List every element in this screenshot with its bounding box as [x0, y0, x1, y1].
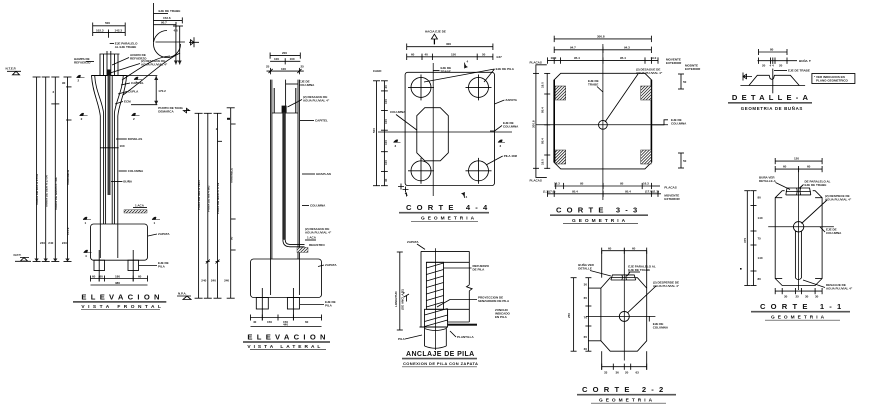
label zapata right	[148, 232, 170, 236]
label refuerzo de pila	[444, 264, 490, 272]
slot c11	[795, 231, 801, 280]
svg-text:40: 40	[425, 52, 429, 56]
svg-text:AGUA PLUVIAL 4": AGUA PLUVIAL 4"	[825, 198, 852, 202]
svg-text:65: 65	[584, 296, 588, 300]
svg-text:(1.3)(7.0): (1.3)(7.0)	[543, 190, 555, 194]
svg-text:DOVELAS: DOVELAS	[128, 137, 143, 141]
svg-text:EJE DE TRABE: EJE DE TRABE	[159, 9, 181, 13]
hatch pad BL	[555, 150, 566, 164]
title CORTE 2-2	[577, 385, 676, 403]
column outer walls	[271, 80, 300, 259]
svg-text:BUÑA: BUÑA	[123, 179, 132, 184]
corner ticks c11	[775, 198, 822, 279]
dimension line v4 lateral	[227, 108, 236, 298]
svg-text:PILA 40Ø: PILA 40Ø	[504, 154, 518, 158]
label modnte exterior right	[685, 64, 701, 72]
buna trapezoid profile	[740, 75, 805, 85]
svg-text:19.0: 19.0	[551, 56, 557, 60]
label capitel	[121, 81, 144, 85]
foundation block lateral	[251, 259, 322, 298]
level marker N.T.E.P.	[6, 67, 22, 75]
svg-text:EJE DE TRABE: EJE DE TRABE	[788, 69, 810, 73]
svg-text:EN PILA: EN PILA	[495, 315, 508, 319]
svg-text:GEOMETRIA: GEOMETRIA	[771, 314, 827, 320]
svg-text:100: 100	[384, 140, 388, 145]
svg-text:CAPITEL: CAPITEL	[131, 81, 144, 85]
svg-text:100: 100	[384, 99, 388, 104]
svg-text:95.4: 95.4	[574, 56, 580, 60]
leader desague c22	[628, 281, 680, 313]
svg-text:AL EJE TRABE: AL EJE TRABE	[115, 45, 137, 49]
label eje de columna c22	[649, 316, 669, 330]
left dims c22	[567, 278, 592, 352]
left dims c44	[372, 69, 388, 186]
title CORTE 1-1	[751, 302, 850, 320]
corner tick marks c44	[398, 184, 409, 197]
section arrows 2 at cap	[77, 75, 143, 84]
svg-text:TRABE: TRABE	[588, 83, 598, 87]
foundation block front	[91, 224, 148, 260]
svg-text:90: 90	[229, 236, 233, 240]
eje de trabe top centerline	[154, 3, 183, 42]
svg-text:140: 140	[758, 216, 763, 220]
svg-text:PILA: PILA	[325, 304, 333, 308]
svg-text:95.4: 95.4	[541, 107, 545, 113]
label ecm	[115, 100, 131, 105]
svg-text:CUPLA: CUPLA	[128, 90, 139, 94]
hacia eje arrow	[425, 30, 446, 45]
svg-text:DEMARCA: DEMARCA	[158, 110, 174, 114]
svg-text:PLANO GEOMETRICO: PLANO GEOMETRICO	[816, 79, 849, 83]
centerline v c11	[798, 168, 800, 290]
label buna ver detalle c22	[578, 262, 611, 276]
svg-text:GEOMETRIA: GEOMETRIA	[599, 397, 655, 403]
center circle c22	[619, 311, 629, 321]
top dimension 200	[270, 51, 300, 59]
svg-text:AGUA PLUVIAL 4": AGUA PLUVIAL 4"	[303, 99, 330, 103]
label movente exterior bottom right2	[658, 194, 681, 202]
svg-text:1 ACA: 1 ACA	[135, 204, 145, 208]
dimension line v1	[33, 77, 46, 262]
svg-text:100: 100	[274, 57, 279, 61]
label 1 aca / tarima hatch	[124, 204, 147, 214]
svg-text:380: 380	[115, 281, 120, 285]
label hampa de refuerzo	[74, 57, 94, 65]
svg-text:94.7: 94.7	[570, 45, 576, 49]
svg-text:GEOMETRIA: GEOMETRIA	[572, 218, 628, 224]
label zapata anclaje	[407, 240, 425, 249]
svg-text:GEOMETRIA DE BUÑAS: GEOMETRIA DE BUÑAS	[741, 106, 803, 111]
column lines inside block	[271, 259, 300, 295]
second dimension 100 100	[270, 57, 300, 64]
title CORTE 4-4	[399, 203, 492, 222]
svg-text:65: 65	[584, 335, 588, 339]
center circle c33	[599, 120, 608, 129]
label eje de columna c44	[490, 121, 519, 131]
svg-text:142.3: 142.3	[115, 28, 123, 32]
svg-text:95: 95	[620, 182, 624, 186]
svg-text:PLACAS: PLACAS	[530, 179, 542, 183]
svg-text:4.6: 4.6	[174, 29, 179, 33]
label eje paralelo al eje trabe	[110, 42, 138, 50]
centerline h c11	[768, 226, 834, 228]
level marker N.P.A.	[177, 292, 191, 300]
hatch pad BR	[641, 150, 652, 164]
label eje de pila lateral	[300, 300, 336, 308]
pole flare outline	[92, 76, 127, 225]
leader desague c33	[605, 68, 663, 123]
svg-text:300.8: 300.8	[597, 34, 605, 38]
label acero de refuerzo	[112, 53, 147, 65]
svg-text:16.3: 16.3	[554, 182, 560, 186]
circle c11	[793, 222, 803, 232]
svg-text:VISTA LATERAL: VISTA LATERAL	[247, 344, 323, 350]
svg-text:19.0: 19.0	[541, 159, 545, 165]
svg-text:100: 100	[384, 119, 388, 124]
svg-text:T: T	[403, 291, 405, 295]
top dimension row2	[407, 52, 502, 60]
title ANCLAJE DE PILA	[402, 351, 478, 367]
svg-text:VARIABLE: VARIABLE	[229, 168, 233, 183]
svg-text:COLUMNA: COLUMNA	[310, 204, 326, 208]
svg-text:40: 40	[253, 320, 257, 324]
svg-text:COLUMNA: COLUMNA	[653, 326, 669, 330]
svg-text:19.0: 19.0	[541, 82, 545, 88]
svg-text:60: 60	[305, 320, 309, 324]
label punto de tangencia	[158, 106, 189, 114]
svg-text:VARIA DE 90A A 170A: VARIA DE 90A A 170A	[35, 173, 39, 205]
label desague lower + registro	[297, 227, 332, 252]
svg-text:95.4: 95.4	[625, 190, 631, 194]
buna plate c11	[786, 188, 811, 195]
label desague agua pluvial	[110, 59, 168, 73]
svg-text:150: 150	[451, 52, 456, 56]
svg-text:16.3: 16.3	[643, 182, 649, 186]
svg-text:30: 30	[584, 283, 588, 287]
svg-text:80: 80	[758, 196, 762, 200]
svg-text:VARIA DE GRUA A TOL: VARIA DE GRUA A TOL	[54, 177, 58, 210]
svg-text:COLUMNA: COLUMNA	[299, 83, 315, 87]
label zuncho	[495, 308, 510, 319]
chamfer extension ticks c22	[588, 251, 646, 370]
top anchor bolt dims	[93, 21, 126, 38]
svg-text:EXTERIOR: EXTERIOR	[685, 67, 701, 71]
svg-text:20: 20	[625, 370, 629, 374]
hatch pad TR	[641, 86, 652, 100]
svg-text:ELEVACION: ELEVACION	[81, 293, 163, 302]
capitel line + downspout cap	[272, 106, 298, 113]
label placas top left	[530, 61, 547, 74]
svg-text:150: 150	[267, 320, 272, 324]
svg-text:PLANTILLA: PLANTILLA	[457, 335, 474, 339]
bottom dims c33	[543, 182, 659, 197]
pile circle TR	[466, 75, 492, 101]
svg-text:COLUMNA: COLUMNA	[671, 122, 687, 126]
svg-text:N.T.E.P.: N.T.E.P.	[6, 67, 17, 71]
label placas bottom right	[651, 186, 676, 190]
svg-text:SENZADERE DE PILA: SENZADERE DE PILA	[478, 299, 510, 303]
svg-text:75: 75	[758, 237, 762, 241]
label buna ver detalle c11	[759, 175, 790, 190]
label placas bottom left	[530, 169, 547, 183]
downspout pipe	[283, 113, 305, 247]
dimension line v2 lateral	[204, 113, 216, 298]
svg-text:500: 500	[372, 128, 376, 133]
label capitel lateral	[300, 119, 328, 123]
dimension line v3	[51, 77, 67, 262]
svg-text:AGUA PLUVIAL 4": AGUA PLUVIAL 4"	[826, 287, 853, 291]
svg-text:100: 100	[290, 57, 295, 61]
svg-text:N.P.A.: N.P.A.	[178, 292, 187, 296]
svg-text:170.2: 170.2	[158, 89, 166, 93]
svg-text:80: 80	[758, 277, 762, 281]
svg-text:100: 100	[384, 160, 388, 165]
svg-text:500: 500	[105, 21, 110, 25]
label columna low	[119, 169, 144, 173]
main plate c11	[775, 191, 822, 286]
svg-text:CORTE 4-4: CORTE 4-4	[406, 203, 492, 212]
svg-text:40: 40	[384, 178, 388, 182]
top dimension 80	[759, 48, 788, 56]
third dimension row	[266, 65, 304, 75]
svg-text:25: 25	[301, 65, 305, 69]
svg-text:60: 60	[783, 165, 787, 169]
section arrows 1 at foundation	[83, 217, 160, 258]
label desague bottom c11	[803, 280, 853, 291]
svg-text:63: 63	[636, 370, 640, 374]
svg-text:19.0: 19.0	[651, 56, 657, 60]
svg-text:50: 50	[482, 52, 486, 56]
title ELEVACION VISTA FRONTAL	[73, 293, 166, 310]
svg-text:EJE DE TRABE: EJE DE TRABE	[805, 183, 827, 187]
svg-text:30: 30	[815, 295, 819, 299]
svg-text:33: 33	[604, 370, 608, 374]
svg-text:CONEXION DE PILA CON ZAPATA: CONEXION DE PILA CON ZAPATA	[403, 361, 478, 366]
top dimension row2	[554, 45, 651, 53]
label eje paralelo c22	[627, 265, 656, 277]
label eje de pila	[139, 261, 169, 269]
svg-text:AGUA PLUVIAL 4": AGUA PLUVIAL 4"	[305, 231, 332, 235]
svg-text:240: 240	[48, 241, 53, 245]
svg-text:AGUA PLUVIAL 4": AGUA PLUVIAL 4"	[636, 71, 663, 75]
piles below lateral block	[256, 288, 299, 321]
svg-text:102.3: 102.3	[96, 28, 104, 32]
hatch pad TL	[555, 86, 566, 100]
svg-text:COLUMNA: COLUMNA	[390, 110, 406, 114]
label eje de columna	[286, 80, 315, 88]
svg-text:60: 60	[100, 274, 104, 278]
leader desague c11	[802, 194, 852, 224]
label eje de pila c44	[424, 67, 515, 82]
svg-text:HACIA EJE DE: HACIA EJE DE	[425, 30, 446, 34]
buna dimension line	[758, 58, 812, 68]
zapata plate rect	[405, 72, 494, 185]
label graplan	[302, 172, 331, 176]
svg-text:VARIABLE: VARIABLE	[66, 170, 70, 185]
top dim c22	[602, 247, 647, 254]
svg-text:40: 40	[384, 85, 388, 89]
transition arc detail	[122, 26, 185, 95]
zuncho box at pile base	[425, 309, 448, 328]
plate square c33	[554, 73, 651, 169]
svg-text:60: 60	[92, 274, 96, 278]
section arrows at flare	[80, 113, 140, 121]
bottom dimension line	[91, 274, 148, 285]
section arrow top	[465, 60, 469, 69]
note box	[812, 74, 855, 84]
svg-text:DETALLE-A: DETALLE-A	[759, 179, 777, 183]
svg-text:EXTERIOR: EXTERIOR	[666, 61, 682, 65]
dot mark left	[740, 268, 742, 270]
pile cylinder below	[425, 327, 447, 348]
svg-text:300.8: 300.8	[532, 120, 536, 128]
dimension line v1 lateral	[195, 113, 207, 298]
level marker N.P.T.	[14, 253, 32, 261]
dimension line v2	[42, 77, 54, 262]
label zapata c44	[495, 98, 518, 104]
label pila anclaje	[398, 335, 422, 341]
svg-text:EXTERIOR: EXTERIOR	[664, 197, 680, 201]
pole cap plate	[91, 75, 126, 77]
svg-text:ANCLAJE DE PILA: ANCLAJE DE PILA	[406, 351, 475, 358]
right vertical dim 170.2	[127, 76, 167, 105]
svg-text:REGISTRO: REGISTRO	[309, 243, 325, 247]
label eje paralelo c11	[799, 180, 831, 189]
svg-text:GRAPLAN: GRAPLAN	[316, 172, 331, 176]
svg-text:240: 240	[211, 279, 216, 283]
svg-text:PLACAS: PLACAS	[664, 186, 676, 190]
svg-text:COLUMNA: COLUMNA	[826, 231, 842, 235]
svg-text:240: 240	[201, 279, 206, 283]
title ELEVACION VISTA LATERAL	[243, 333, 330, 350]
svg-text:DETALLE: DETALLE	[578, 267, 592, 271]
svg-text:BUÑA ▼: BUÑA ▼	[799, 58, 811, 63]
svg-text:30: 30	[805, 295, 809, 299]
label columna c44	[390, 110, 417, 130]
label proyeccion	[437, 296, 510, 308]
svg-text:90: 90	[62, 81, 66, 85]
svg-text:36: 36	[616, 370, 620, 374]
svg-text:LONGITUD: LONGITUD	[394, 291, 398, 307]
svg-text:60: 60	[608, 247, 612, 251]
svg-text:80: 80	[770, 48, 774, 52]
bottom dim c11	[775, 288, 822, 299]
svg-text:PARA DE IELR A 7709: PARA DE IELR A 7709	[216, 183, 220, 214]
label eje de columna c33	[651, 118, 687, 126]
svg-text:200: 200	[282, 51, 287, 55]
label pila 40 c44	[486, 154, 518, 165]
octagon c22	[601, 278, 647, 352]
svg-text:TRABE: TRABE	[441, 70, 451, 74]
svg-text:95: 95	[580, 182, 584, 186]
label zapata lateral	[318, 263, 337, 267]
label eje de trabe c44	[433, 66, 451, 74]
svg-text:ZAPATA: ZAPATA	[158, 232, 170, 236]
svg-text:180: 180	[115, 274, 120, 278]
left dims c11	[743, 191, 763, 286]
left arrow detalle	[743, 73, 752, 81]
center line of buna	[772, 69, 774, 94]
zapata outline	[421, 251, 472, 327]
centerline horizontal c44	[378, 131, 512, 133]
pile circle TL	[408, 75, 434, 101]
svg-text:4 4: 4 4	[770, 64, 775, 68]
svg-text:60: 60	[138, 274, 142, 278]
svg-text:375: 375	[743, 238, 747, 243]
pole core stripe	[106, 76, 113, 225]
svg-text:25: 25	[266, 65, 270, 69]
svg-text:152.6: 152.6	[163, 16, 171, 20]
centerline h c22	[586, 315, 655, 317]
svg-text:DETALLE-A: DETALLE-A	[732, 93, 812, 102]
svg-text:60: 60	[807, 165, 811, 169]
svg-text:ZAPATA: ZAPATA	[505, 98, 517, 102]
svg-text:ELEVACION: ELEVACION	[247, 333, 329, 342]
label dovelas mid	[100, 137, 142, 148]
top dimension 300	[407, 42, 493, 50]
svg-text:20: 20	[762, 64, 766, 68]
svg-text:170.2: 170.2	[66, 227, 70, 235]
svg-text:100: 100	[120, 144, 125, 148]
pile with helix	[426, 262, 469, 309]
svg-text:ECM: ECM	[124, 100, 131, 104]
bottom dimension lateral	[251, 315, 322, 327]
svg-text:30: 30	[584, 347, 588, 351]
pile circle BR	[466, 158, 492, 184]
svg-text:AGUA PLUVIAL 4°: AGUA PLUVIAL 4°	[653, 284, 680, 288]
svg-text:50: 50	[683, 159, 687, 163]
svg-text:70: 70	[584, 316, 588, 320]
bottom zapata line	[420, 326, 448, 328]
north cross flag	[189, 37, 199, 47]
svg-text:PLACAS: PLACAS	[530, 61, 542, 65]
svg-text:DE PILA: DE PILA	[473, 268, 486, 272]
svg-text:PARA DE IGH A 1994: PARA DE IGH A 1994	[197, 180, 201, 210]
small tick marker	[403, 291, 409, 302]
centerline vertical c44	[432, 63, 434, 196]
label eje de trabe detalle	[774, 69, 810, 73]
section arrow left 3	[394, 140, 401, 148]
svg-text:PILA: PILA	[398, 337, 406, 341]
title CORTE 3-3	[550, 206, 648, 224]
svg-text:1 ACA: 1 ACA	[307, 236, 317, 240]
svg-text:240: 240	[40, 241, 45, 245]
column octagon c44	[417, 108, 449, 161]
centerline horizontal c33	[536, 124, 668, 126]
label cupla	[118, 90, 139, 95]
svg-text:60: 60	[632, 247, 636, 251]
svg-text:PILA: PILA	[158, 265, 166, 269]
svg-text:20: 20	[779, 64, 783, 68]
svg-text:100: 100	[281, 67, 286, 71]
top dim c11	[775, 157, 822, 173]
svg-text:CAED: CAED	[373, 69, 382, 73]
svg-text:ZAPATA: ZAPATA	[325, 263, 337, 267]
label plantilla	[450, 331, 474, 339]
section arrow bottom	[462, 192, 468, 199]
svg-text:95.4: 95.4	[572, 190, 578, 194]
svg-text:CORTE 3-3: CORTE 3-3	[556, 206, 642, 215]
right bracket marks c33	[678, 74, 687, 168]
svg-text:EJE DE PILA: EJE DE PILA	[496, 67, 515, 71]
pile circle BL	[408, 158, 434, 184]
dimension line v4	[62, 77, 72, 262]
label desague top	[288, 95, 330, 107]
svg-text:GEOMETRIA: GEOMETRIA	[421, 216, 477, 222]
top dimension 300.8	[554, 34, 651, 42]
svg-text:CORTE 2-2: CORTE 2-2	[582, 385, 668, 394]
center line anclaje	[434, 248, 436, 350]
